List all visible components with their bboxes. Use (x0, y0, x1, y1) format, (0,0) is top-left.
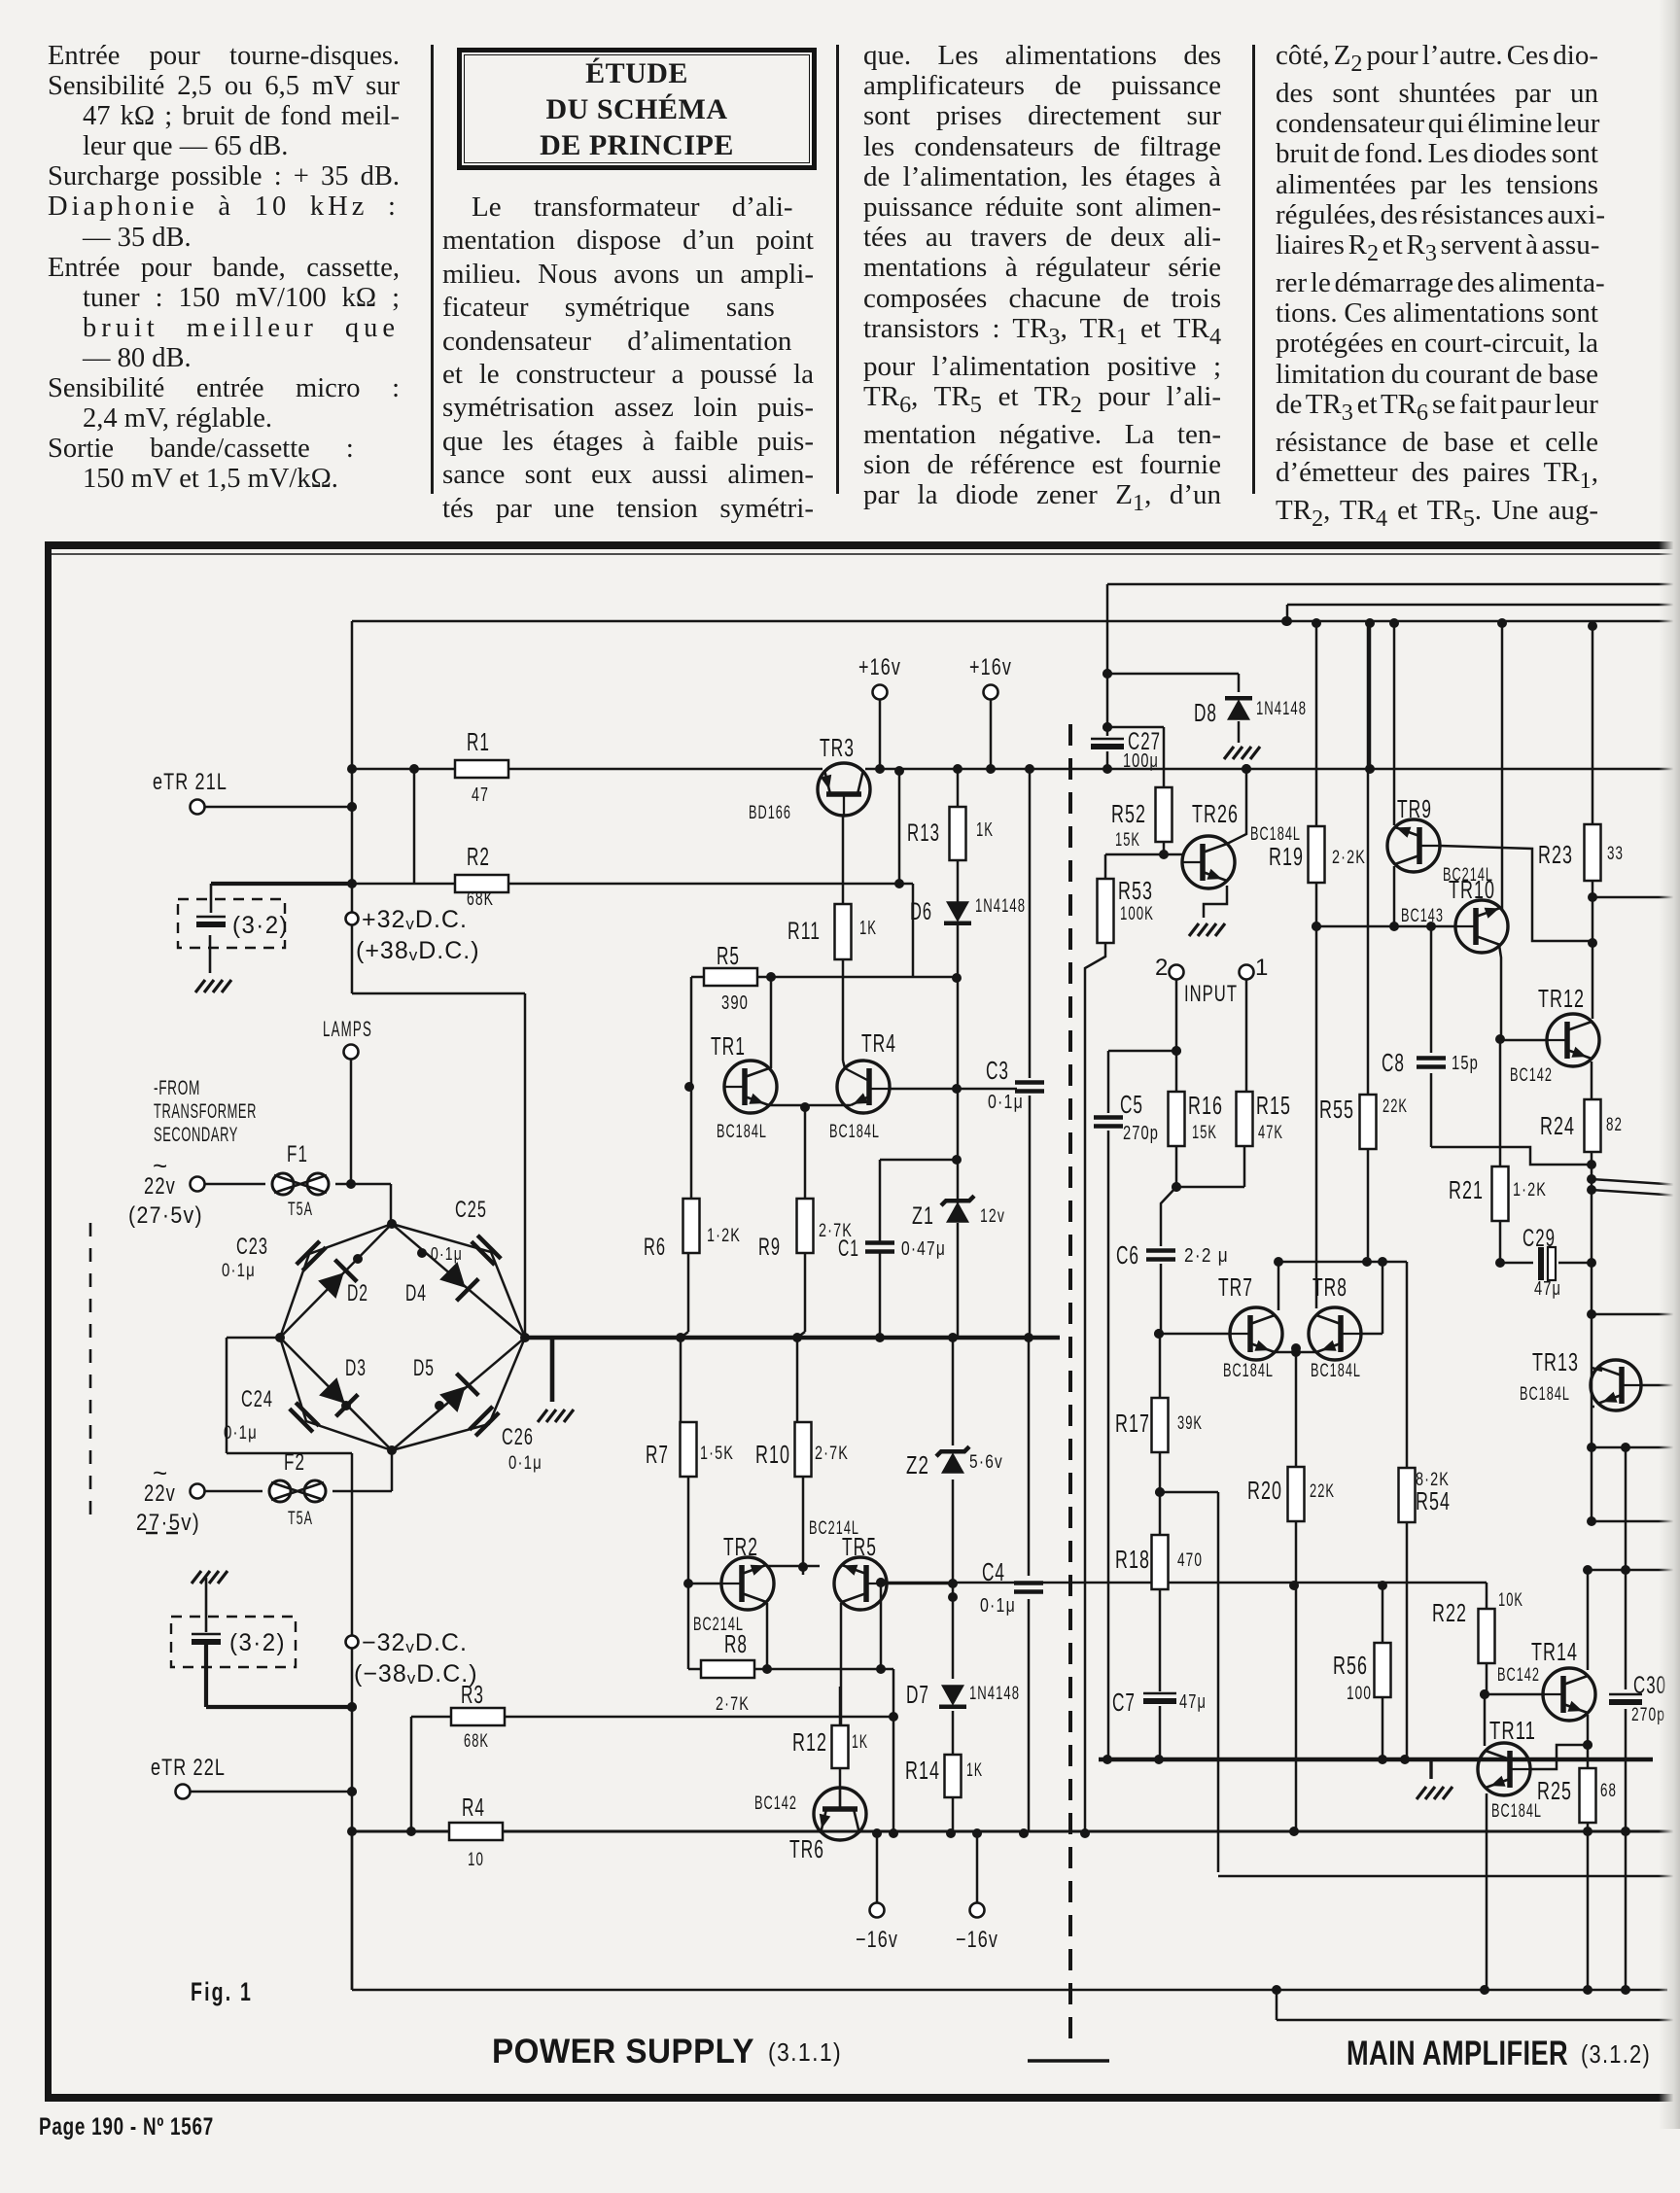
terminal eTR21L (191, 800, 205, 815)
transistor TR4 (837, 1061, 890, 1113)
wire C27 column (1106, 584, 1109, 736)
svg-text:TRANSFORMER: TRANSFORMER (154, 1100, 257, 1123)
svg-text:15K: 15K (1192, 1123, 1217, 1143)
capacitor C26 path (392, 1338, 525, 1450)
svg-text:1K: 1K (976, 819, 994, 841)
wire cap32 upper gnd (209, 935, 212, 973)
capacitor C3 (1015, 1080, 1044, 1085)
wire F1 line (205, 1183, 265, 1186)
wire R22 base line (1485, 1693, 1545, 1696)
svg-text:100μ: 100μ (1123, 750, 1159, 772)
wire TR11 emitter drop (1486, 1793, 1488, 1990)
wire R25 bottom (1587, 1823, 1590, 1990)
column rule 1 (431, 45, 434, 494)
svg-text:C23: C23 (236, 1234, 268, 1260)
transistor TR1 (724, 1061, 777, 1113)
svg-text:1·5K: 1·5K (700, 1444, 734, 1464)
svg-text:D7: D7 (906, 1680, 929, 1709)
resistor R5 (704, 968, 757, 986)
svg-text:eTR 21L: eTR 21L (153, 769, 227, 795)
schematic frame border (45, 541, 1680, 549)
wire C30 column (1625, 1447, 1627, 1689)
wire TR7 base line (1159, 1333, 1231, 1336)
wire y1615 line (1588, 1569, 1680, 1572)
transistor TR11 (1478, 1743, 1530, 1795)
wire R52 bottom (1163, 842, 1166, 854)
wire D8 gnd lead (1238, 721, 1241, 743)
wire R7 column (680, 1338, 682, 1422)
wire C4 column (1028, 1338, 1031, 1576)
svg-text:R7: R7 (646, 1440, 669, 1469)
terminal AC2 (191, 1484, 205, 1499)
resistor R11 (835, 904, 852, 959)
wire R9 column (804, 1253, 807, 1332)
wire TR2 base (688, 1583, 722, 1585)
terminal +32v (346, 913, 359, 925)
column rule 3 (1252, 45, 1255, 494)
svg-text:R14: R14 (905, 1756, 940, 1785)
svg-text:R13: R13 (907, 819, 940, 847)
svg-text:390: 390 (721, 992, 749, 1014)
text column c4 (1276, 41, 1598, 534)
capacitor C27 (1091, 738, 1124, 741)
svg-text:BC184L: BC184L (1311, 1361, 1361, 1381)
transistor TR8 (1309, 1307, 1361, 1360)
text column c3 (863, 41, 1221, 518)
svg-text:TR11: TR11 (1489, 1716, 1536, 1745)
ground TR26 (1189, 923, 1199, 936)
svg-text:0·1μ: 0·1μ (431, 1244, 463, 1264)
wire R22 drop (1486, 1583, 1488, 1609)
resistor R20 (1288, 1467, 1305, 1521)
svg-text:~: ~ (153, 1151, 169, 1180)
wire ground bus power supply (525, 1336, 1060, 1340)
wire R18 C7 (1159, 1589, 1162, 1691)
wire F2 line (205, 1490, 262, 1493)
wire R14 column (952, 1795, 955, 1831)
svg-text:1K: 1K (859, 918, 877, 939)
svg-text:0·1μ: 0·1μ (508, 1453, 542, 1474)
capacitor C8 (1417, 1056, 1446, 1061)
svg-text:R23: R23 (1538, 840, 1573, 869)
svg-text:1: 1 (1255, 955, 1270, 981)
svg-text:−16v: −16v (856, 1927, 898, 1953)
transistor TR2 (721, 1557, 774, 1610)
svg-text:F2: F2 (284, 1449, 305, 1476)
svg-text:1N4148: 1N4148 (969, 1684, 1020, 1704)
svg-text:2·2 μ: 2·2 μ (1184, 1245, 1229, 1267)
svg-text:R4: R4 (462, 1793, 485, 1822)
transistor TR5 (834, 1557, 887, 1610)
svg-text:27·5v): 27·5v) (136, 1510, 200, 1536)
wire TR26 emitter (1204, 886, 1227, 918)
svg-text:BC142: BC142 (1497, 1665, 1540, 1686)
wire TR8 base (1361, 1333, 1382, 1336)
wire TR5 collector drop (840, 1603, 843, 1725)
svg-text:R9: R9 (758, 1234, 781, 1261)
svg-text:R1: R1 (467, 727, 490, 756)
svg-text:BC184L: BC184L (717, 1122, 767, 1142)
svg-text:C6: C6 (1116, 1240, 1139, 1270)
wire R15 bottom (1243, 1146, 1246, 1187)
wire C3 column (1029, 769, 1032, 1078)
svg-text:1N4148: 1N4148 (975, 896, 1026, 917)
fuse F2 (269, 1480, 291, 1502)
wire R55 column (1367, 621, 1370, 1095)
wire feedback line (881, 1582, 1487, 1584)
svg-text:C4: C4 (982, 1557, 1005, 1586)
wire TR9 emitter riser (1393, 621, 1396, 825)
wire left supply vertical (351, 621, 354, 993)
svg-text:0·1μ: 0·1μ (222, 1261, 256, 1281)
transistor TR26 (1182, 836, 1235, 888)
resistor R1 (455, 760, 508, 778)
resistor R56 (1375, 1643, 1391, 1697)
svg-text:39K: 39K (1177, 1413, 1203, 1434)
wire R53 bottom (1085, 943, 1105, 1831)
wire TR2 TR5 top node (767, 1565, 820, 1568)
wire inner bottom step (1276, 1990, 1278, 2020)
svg-text:BC184L: BC184L (829, 1122, 880, 1142)
svg-text:C7: C7 (1112, 1688, 1136, 1717)
text column c2 (442, 191, 814, 525)
resistor R15 (1237, 1092, 1253, 1146)
wire output line A (1592, 1179, 1680, 1185)
wire R6 column (690, 1087, 693, 1199)
resistor R21 (1492, 1166, 1509, 1221)
wire LAMPS drop (350, 1059, 353, 1184)
svg-text:R52: R52 (1111, 799, 1146, 828)
svg-text:0·1μ: 0·1μ (988, 1092, 1024, 1113)
diode D6 (946, 901, 969, 922)
title box ETUDE DU SCHEMA DE PRINCIPE (457, 48, 817, 170)
wire TR2 emitter drop (766, 1603, 769, 1669)
svg-text:1·2K: 1·2K (1513, 1180, 1547, 1201)
svg-text:R15: R15 (1256, 1091, 1291, 1120)
wire R56 column (1382, 1585, 1384, 1643)
wire R17 R18 node (1155, 1487, 1165, 1497)
wire -16v drop 1 (876, 1833, 879, 1902)
wire R23 column (1592, 621, 1594, 824)
svg-text:(−38vD.C.): (−38vD.C.) (354, 1660, 478, 1688)
capacitor C24 path (280, 1338, 392, 1450)
svg-text:R6: R6 (644, 1234, 666, 1261)
svg-text:0·1μ: 0·1μ (224, 1423, 258, 1444)
ground lower 3.2 (192, 1571, 201, 1584)
transistor TR14 (1543, 1668, 1595, 1721)
svg-text:R2: R2 (467, 842, 490, 871)
wire eTR21L (205, 806, 352, 809)
svg-text:T5A: T5A (288, 1200, 313, 1220)
resistor R54 (1399, 1468, 1416, 1522)
svg-text:D4: D4 (405, 1280, 427, 1306)
transistor TR3 (818, 763, 870, 816)
svg-text:TR8: TR8 (1312, 1272, 1347, 1302)
column rule 2 (836, 45, 839, 494)
svg-text:68K: 68K (467, 888, 494, 910)
wire cap32 lower link (204, 1645, 208, 1707)
wire C6 link (1161, 1187, 1176, 1246)
wire R5 line (691, 976, 957, 979)
svg-text:-FROM: -FROM (154, 1077, 200, 1099)
wire C8 column (1430, 926, 1433, 1053)
svg-text:TR12: TR12 (1538, 984, 1585, 1013)
svg-text:BC184L: BC184L (1223, 1361, 1274, 1381)
terminal -16v a (870, 1903, 885, 1918)
svg-text:R20: R20 (1247, 1476, 1282, 1505)
wire output line B (1592, 1190, 1680, 1196)
resistor R18 (1152, 1535, 1169, 1589)
svg-text:100K: 100K (1120, 904, 1154, 924)
wire TR5 base link (887, 1583, 953, 1585)
resistor R6 (683, 1199, 700, 1253)
wire TR11 base path (1530, 1745, 1588, 1769)
resistor R23 (1585, 824, 1601, 881)
resistor R16 (1169, 1092, 1185, 1146)
svg-text:R54: R54 (1416, 1486, 1451, 1515)
wire -16v bus (352, 1830, 1680, 1833)
wire +16v rail (352, 768, 822, 771)
junction dots (347, 764, 357, 774)
wire TR9 collector drop (1393, 866, 1396, 926)
wire output node column (1591, 1062, 1593, 1522)
svg-text:100: 100 (1347, 1684, 1372, 1704)
capacitor C30 (1609, 1693, 1642, 1696)
svg-text:(3.1.1): (3.1.1) (768, 2037, 842, 2067)
svg-text:2·7K: 2·7K (815, 1444, 849, 1464)
svg-text:C26: C26 (502, 1424, 534, 1450)
wire C6 bottom (1160, 1264, 1163, 1334)
diode D4 (439, 1262, 466, 1288)
ground symbol power supply (538, 1410, 547, 1422)
diode D2 (318, 1272, 344, 1299)
svg-text:BC184L: BC184L (1520, 1384, 1570, 1405)
resistor R53 (1098, 879, 1114, 943)
svg-text:(3·2): (3·2) (229, 1629, 286, 1656)
wire bridge bottom drop (391, 1450, 394, 1491)
svg-text:47K: 47K (1258, 1123, 1283, 1143)
wire R16 column (1175, 1051, 1178, 1092)
wire top bus (352, 620, 1680, 623)
svg-text:R12: R12 (792, 1727, 827, 1757)
svg-text:0·47μ: 0·47μ (901, 1238, 946, 1260)
svg-text:TR2: TR2 (723, 1532, 758, 1561)
svg-text:R56: R56 (1333, 1651, 1368, 1680)
transistor TR7 (1230, 1307, 1282, 1360)
terminal +16v a (873, 685, 888, 700)
wire upper bus A (1107, 583, 1680, 586)
svg-text:(27·5v): (27·5v) (128, 1202, 203, 1229)
svg-text:R21: R21 (1449, 1175, 1484, 1204)
svg-text:12v: 12v (980, 1206, 1005, 1227)
wire TR7 collector line (1278, 1261, 1407, 1264)
capacitor C29 (1538, 1247, 1544, 1280)
resistor R52 (1156, 787, 1172, 842)
wire TR26 node (898, 771, 901, 884)
text column c1 (48, 41, 400, 494)
svg-text:TR7: TR7 (1218, 1272, 1253, 1302)
resistor R22 (1479, 1609, 1495, 1663)
zener Z1 (946, 1201, 969, 1223)
wire TR10 emitter riser (1501, 621, 1504, 909)
svg-text:eTR 22L: eTR 22L (151, 1755, 226, 1781)
ground main amp (1429, 1759, 1432, 1779)
wire bridge neg return (227, 1337, 280, 1340)
diode D5 (439, 1386, 466, 1412)
ground D8 (1224, 747, 1234, 759)
svg-text:R24: R24 (1540, 1111, 1575, 1140)
svg-text:Z1: Z1 (912, 1202, 934, 1230)
svg-text:−32vD.C.: −32vD.C. (362, 1629, 468, 1656)
wire Z1 lower (957, 1223, 960, 1338)
resistor R10 (795, 1422, 812, 1477)
wire R20 column (1295, 1352, 1298, 1467)
wire inner bottom (352, 1989, 1667, 1992)
svg-text:(3.1.2): (3.1.2) (1581, 2039, 1651, 2069)
resistor R13 (950, 807, 966, 860)
svg-text:+32vD.C.: +32vD.C. (362, 906, 468, 933)
wire TR26 collector (1227, 771, 1246, 844)
diode D7 (941, 1685, 964, 1706)
diode D3 (319, 1377, 345, 1404)
wire TR7 collector (1277, 1262, 1280, 1310)
wire ground stub (550, 1338, 555, 1402)
svg-text:15p: 15p (1452, 1053, 1479, 1074)
transistor TR13 (1591, 1360, 1641, 1410)
svg-text:F1: F1 (287, 1141, 308, 1167)
svg-text:TR10: TR10 (1449, 875, 1495, 904)
bridge rectifier diamond (280, 1224, 525, 1450)
wire R2 output (211, 883, 913, 886)
wire Z2 D7 (952, 1711, 955, 1755)
svg-text:1·2K: 1·2K (707, 1226, 741, 1246)
wire TR14 emitter drop (1587, 1715, 1590, 1768)
wire y1565 line (1592, 1520, 1680, 1523)
svg-text:R53: R53 (1118, 876, 1153, 905)
svg-text:POWER SUPPLY: POWER SUPPLY (492, 2033, 754, 2071)
wire R10 column (796, 1338, 799, 1422)
resistor R9 (797, 1199, 814, 1253)
resistor R7 (681, 1422, 697, 1477)
svg-text:TR3: TR3 (820, 733, 855, 762)
terminal INPUT 2 (1170, 965, 1184, 980)
svg-text:D2: D2 (347, 1280, 368, 1306)
dashed divider (1068, 724, 1072, 2046)
wire y1352 line (1592, 1313, 1680, 1316)
terminal INPUT 1 (1240, 965, 1254, 980)
wire TR14 collector riser (1587, 1570, 1590, 1670)
dashed divider foot (1028, 2059, 1109, 2063)
svg-text:33: 33 (1607, 844, 1624, 864)
svg-text:BC184L: BC184L (1491, 1801, 1542, 1822)
svg-text:22K: 22K (1382, 1096, 1408, 1117)
svg-text:5·6v: 5·6v (969, 1452, 1003, 1473)
svg-text:R16: R16 (1188, 1091, 1223, 1120)
wire INPUT1 drop (1245, 979, 1248, 1092)
fuse F1 (272, 1173, 294, 1195)
svg-text:22K: 22K (1310, 1481, 1335, 1502)
wire TR9 base path (1440, 846, 1592, 941)
svg-text:R8: R8 (724, 1629, 748, 1658)
wire TR10 collector drop (1499, 945, 1501, 1039)
svg-text:TR14: TR14 (1531, 1637, 1578, 1666)
wire C5 column (1107, 1051, 1110, 1113)
dashed transformer link (89, 1223, 92, 1524)
svg-text:~: ~ (153, 1458, 169, 1487)
wire cap32 upper link (211, 882, 352, 886)
wire heavy zero bus (1099, 1758, 1653, 1762)
svg-text:C3: C3 (986, 1056, 1009, 1085)
resistor R2 (455, 875, 508, 892)
wire R22 TR11 column (1486, 1663, 1488, 1694)
transistor TR10 (1455, 900, 1508, 953)
capacitor C5 (1094, 1115, 1123, 1120)
wire C5 branch (1108, 1050, 1176, 1053)
svg-text:TR13: TR13 (1532, 1347, 1579, 1376)
svg-text:BC143: BC143 (1401, 906, 1444, 926)
resistor R12 (832, 1725, 849, 1768)
terminal eTR22L (176, 1785, 191, 1799)
svg-text:2: 2 (1155, 955, 1170, 981)
wire R8 line (688, 1668, 893, 1671)
svg-text:R18: R18 (1115, 1545, 1150, 1574)
wire cap32 lower gnd (205, 1578, 208, 1632)
wire TR9 TR10 base line (1316, 925, 1455, 928)
wire R17 column (1159, 1334, 1162, 1398)
terminal -16v b (970, 1903, 985, 1918)
svg-text:68: 68 (1600, 1781, 1617, 1801)
svg-text:270p: 270p (1123, 1123, 1159, 1144)
wire TR7 emitter (1275, 1351, 1316, 1354)
svg-text:R10: R10 (755, 1440, 790, 1469)
svg-text:SECONDARY: SECONDARY (154, 1124, 238, 1146)
wire R52 link (1107, 726, 1164, 729)
transistor TR6 (814, 1788, 866, 1840)
svg-text:BC214L: BC214L (809, 1518, 859, 1539)
ground upper 3.2 (195, 980, 205, 992)
capacitor C25 path (392, 1224, 525, 1338)
svg-text:68K: 68K (464, 1731, 489, 1752)
svg-text:(+38vD.C.): (+38vD.C.) (356, 937, 480, 964)
svg-text:Fig. 1: Fig. 1 (191, 1977, 253, 2006)
wire y1930 line (1218, 1875, 1680, 1878)
svg-text:47μ: 47μ (1534, 1278, 1561, 1300)
svg-text:R22: R22 (1432, 1598, 1467, 1627)
wire D6 column (957, 769, 960, 807)
wire y1489 line (1592, 1446, 1680, 1449)
zener Z2 (941, 1452, 964, 1474)
svg-text:0·1μ: 0·1μ (980, 1595, 1016, 1617)
resistor R55 (1360, 1095, 1377, 1149)
transistor TR12 (1547, 1014, 1599, 1066)
transistor TR9 (1387, 819, 1440, 872)
svg-text:Z2: Z2 (906, 1450, 929, 1479)
svg-text:R19: R19 (1269, 842, 1304, 871)
svg-text:Page 190 - Nº 1567: Page 190 - Nº 1567 (39, 2113, 214, 2141)
wire R12 column (839, 1687, 842, 1725)
wire C1 stub (880, 1159, 958, 1162)
capacitor C1 (865, 1240, 894, 1245)
wire R2 feed (413, 769, 416, 884)
wire -16v drop 2 (976, 1833, 979, 1902)
wire R21 column (1499, 1039, 1502, 1166)
svg-text:BC142: BC142 (1510, 1065, 1553, 1086)
svg-text:TR4: TR4 (861, 1028, 896, 1058)
wire y923 line (1592, 896, 1680, 899)
svg-text:TR9: TR9 (1397, 794, 1432, 823)
resistor R4 (449, 1823, 503, 1840)
svg-text:D8: D8 (1194, 698, 1217, 727)
